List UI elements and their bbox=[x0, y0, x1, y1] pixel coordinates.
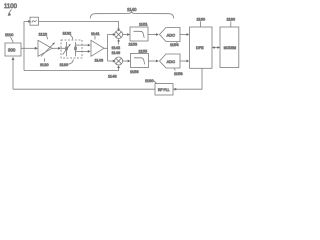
arrow box1-box2 bbox=[212, 46, 220, 49]
svg-text:1120: 1120 bbox=[40, 62, 49, 67]
svg-text:1100: 1100 bbox=[4, 4, 18, 10]
LO wire to mixer2 bbox=[24, 65, 120, 70]
amplifier 1141 bbox=[91, 40, 104, 56]
svg-text:1158: 1158 bbox=[174, 71, 183, 76]
wire mixer2 to filter2 bbox=[123, 60, 129, 62]
mixer 1146 bbox=[115, 57, 123, 65]
filter LPF Q bbox=[131, 54, 149, 68]
svg-text:1180: 1180 bbox=[227, 17, 236, 22]
svg-text:300: 300 bbox=[8, 48, 16, 53]
svg-text:1132: 1132 bbox=[63, 31, 72, 36]
ADC Q bbox=[160, 54, 181, 68]
label 1130 bbox=[60, 59, 74, 67]
arrow into box 300 bottom bbox=[12, 57, 15, 60]
label 1158 bbox=[174, 68, 183, 76]
label 1120 bbox=[40, 58, 49, 67]
svg-text:1155: 1155 bbox=[139, 49, 148, 54]
label 1154 bbox=[170, 42, 179, 47]
LO box 1190 bbox=[155, 84, 173, 96]
wire riser to top box and down to LO stub line bbox=[24, 22, 29, 71]
wire amp out split to mixers bbox=[104, 47, 108, 49]
svg-text:DFE: DFE bbox=[196, 46, 204, 50]
mixer 1142 bbox=[115, 31, 123, 39]
label 1190 bbox=[145, 78, 157, 83]
wire bottom LO line bbox=[13, 88, 155, 90]
svg-text:MODEM: MODEM bbox=[224, 46, 237, 50]
svg-text:1141: 1141 bbox=[91, 31, 100, 36]
label 1180 bbox=[227, 17, 236, 27]
svg-text:1143: 1143 bbox=[95, 58, 104, 63]
svg-text:1140: 1140 bbox=[127, 7, 137, 12]
svg-text:1151: 1151 bbox=[139, 22, 148, 27]
wire ADC2 to box1 bbox=[180, 60, 187, 62]
label 1141 bbox=[91, 31, 100, 39]
box 1160 DSP bbox=[190, 27, 213, 68]
wire ADC1 to box1 bbox=[180, 34, 187, 36]
svg-text:1156: 1156 bbox=[130, 69, 139, 74]
tunable filter 1130 (dashed) bbox=[61, 40, 82, 58]
wire box300 to LNA bbox=[21, 47, 35, 49]
filter LPF I bbox=[130, 27, 148, 41]
svg-text:1110: 1110 bbox=[5, 32, 14, 37]
wire mixer1 to filter1 bbox=[123, 34, 128, 36]
balun secondary bbox=[74, 42, 77, 56]
svg-text:1130: 1130 bbox=[60, 62, 69, 67]
svg-text:1148: 1148 bbox=[108, 73, 117, 78]
svg-text:1190: 1190 bbox=[145, 78, 154, 83]
svg-text:ADC: ADC bbox=[167, 32, 176, 37]
wire LNA to tunable filter bbox=[52, 47, 59, 49]
label 1132 bbox=[63, 31, 73, 40]
balun primary bbox=[61, 42, 71, 56]
wire top bypass line to mixer1 bbox=[39, 22, 119, 30]
LO stub mixer1 bbox=[117, 39, 120, 45]
svg-text:1160: 1160 bbox=[197, 17, 206, 22]
wire from LO line up to box 300 bbox=[12, 60, 14, 90]
label 1160 bbox=[197, 17, 206, 27]
wire filter1 to ADC1 bbox=[148, 34, 156, 36]
svg-text:RF PLL: RF PLL bbox=[158, 88, 170, 92]
box 1180 modem bbox=[220, 27, 239, 68]
wire filter2 to ADC2 bbox=[149, 60, 157, 62]
amplifier LNA 1120 bbox=[38, 40, 55, 56]
box 300 bbox=[5, 43, 21, 56]
svg-text:1122: 1122 bbox=[39, 32, 48, 37]
figure number 1100 bbox=[4, 4, 18, 16]
label 1110 bbox=[5, 32, 14, 42]
svg-text:ADC: ADC bbox=[167, 59, 176, 64]
svg-text:1153: 1153 bbox=[129, 42, 138, 47]
svg-text:1146: 1146 bbox=[112, 50, 121, 55]
svg-text:1154: 1154 bbox=[170, 42, 179, 47]
ADC I bbox=[160, 28, 181, 42]
brace 1140 bbox=[90, 7, 174, 19]
top box (bypass element) bbox=[30, 17, 39, 25]
wires differential filter to amp bbox=[76, 44, 89, 46]
label 1122 bbox=[39, 32, 48, 40]
wire LO box to DSP box bbox=[173, 69, 202, 91]
